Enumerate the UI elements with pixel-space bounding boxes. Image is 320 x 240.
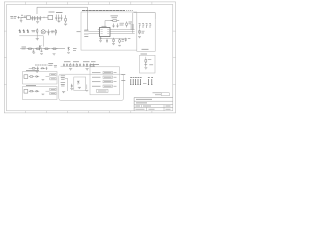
junction row1 xyxy=(43,17,45,19)
wire H in xyxy=(86,85,88,90)
U1 pin names xyxy=(101,30,110,34)
ground GND3 xyxy=(57,21,60,23)
ground GND2 xyxy=(36,22,39,24)
resistor R25 xyxy=(119,39,121,44)
transistor Q5 xyxy=(39,45,41,50)
label band2 text xyxy=(22,47,27,49)
label D2 text xyxy=(148,59,152,61)
label row2 text xyxy=(92,76,101,78)
sheet border outer frame xyxy=(4,2,175,113)
title block line2 xyxy=(134,104,173,106)
label R8 text xyxy=(142,31,145,33)
capacitor C6 xyxy=(58,15,60,21)
title block line3 xyxy=(134,106,173,108)
label TP2 text xyxy=(133,77,135,79)
group box sensor xyxy=(140,55,156,73)
testpoint TP5 xyxy=(139,79,141,85)
resistor R21 xyxy=(32,68,36,69)
border zone ticks top xyxy=(26,2,152,5)
testpoint pads xyxy=(130,84,152,86)
U1 right pins xyxy=(110,30,112,34)
resistor R14 xyxy=(70,63,71,66)
resistor R1 xyxy=(24,16,27,17)
ground GND16 xyxy=(85,89,88,92)
resistor R3 xyxy=(111,20,120,22)
label TP7 text xyxy=(151,77,153,79)
regulator U2 xyxy=(26,16,30,19)
label sensor caption xyxy=(141,53,148,55)
group box radio module xyxy=(137,13,155,52)
capacitor C14 xyxy=(33,49,35,52)
label R17 text xyxy=(61,75,66,77)
capacitor C10 xyxy=(100,37,102,40)
label JP3 text xyxy=(146,22,148,24)
U1 refdes text xyxy=(102,25,107,27)
ground GND20 xyxy=(32,52,35,55)
wire U1 out1 xyxy=(112,29,135,31)
U1 left pins xyxy=(98,30,100,34)
wire node VCC xyxy=(30,16,41,18)
capacitor C18 xyxy=(79,64,81,67)
ground GND17 xyxy=(42,78,45,81)
label part5 text xyxy=(48,64,53,66)
label row3 box xyxy=(103,81,113,83)
label JP4 text xyxy=(149,22,151,24)
capacitor C22 xyxy=(46,67,48,70)
ground GND11 xyxy=(67,52,70,55)
resistor R6 xyxy=(126,22,128,28)
wire band2 xyxy=(20,48,65,50)
label JP1 text xyxy=(139,22,141,24)
wire to module xyxy=(134,13,156,19)
testpoint TP2 xyxy=(132,79,134,85)
diode D8 xyxy=(35,76,39,78)
battery BT3 xyxy=(27,29,29,33)
ground GND22 xyxy=(118,44,121,47)
ground GND1 xyxy=(20,18,23,22)
wire group1 xyxy=(29,67,33,69)
jumper JP4 xyxy=(150,25,151,28)
title block outline xyxy=(134,98,173,111)
label TP3 text xyxy=(135,77,137,79)
transistor Q3 xyxy=(77,81,79,85)
resistor R5 xyxy=(84,34,89,37)
resistor R8 xyxy=(139,31,141,34)
label module text xyxy=(142,48,149,50)
label row1 box xyxy=(103,72,113,74)
resistor R4 xyxy=(84,30,89,31)
ground GND6 xyxy=(112,43,115,45)
jumper JP2 xyxy=(143,25,144,28)
ground GND13 xyxy=(86,69,89,71)
border zone ticks right xyxy=(173,31,176,84)
ground GND4 xyxy=(64,24,67,26)
ground GND9 xyxy=(36,39,39,41)
wire opto2 xyxy=(46,90,50,92)
ground GND7 xyxy=(138,37,141,39)
led D2 xyxy=(145,60,147,65)
label PWR text xyxy=(49,11,63,13)
fuse F1 xyxy=(20,15,23,17)
title text file xyxy=(136,108,171,110)
resistor R9 xyxy=(55,29,56,35)
transistor Q2 xyxy=(67,47,69,52)
label R3 text xyxy=(111,16,119,18)
resistor R16 xyxy=(86,63,87,66)
label group1 text xyxy=(35,64,48,66)
title text title xyxy=(136,102,147,104)
title block divider1 xyxy=(140,105,142,108)
label row4 mark xyxy=(114,85,117,87)
border zone ticks left xyxy=(4,31,6,84)
diode D1 xyxy=(18,16,20,18)
connector J3 xyxy=(24,90,28,94)
transistor Q4 xyxy=(41,30,45,34)
diode D9 xyxy=(35,90,39,92)
label C9 text xyxy=(120,23,125,25)
battery BT1 xyxy=(19,29,21,33)
jumper JP3 xyxy=(147,25,148,28)
resistor R24 xyxy=(29,91,34,92)
capacitor C25 xyxy=(93,64,95,67)
capacitor C2 xyxy=(34,16,36,21)
ground GND5 xyxy=(99,41,102,43)
capacitor C12 xyxy=(48,29,50,35)
battery BT2 xyxy=(23,29,25,33)
label JP2 text xyxy=(142,22,144,24)
wire sensor xyxy=(145,57,147,59)
label Q2 text xyxy=(73,49,77,51)
label R18 text xyxy=(61,82,66,84)
transistor Q4 leads xyxy=(41,30,45,33)
wire U1 out2 xyxy=(112,31,135,33)
border zone ticks bottom xyxy=(26,111,152,113)
testpoint TP3 xyxy=(135,79,137,85)
resistor R15 xyxy=(76,63,77,66)
wire bus mid xyxy=(61,65,96,67)
label row1 text xyxy=(92,72,101,74)
wire VIN top bus xyxy=(37,7,88,30)
label opto1 box1 xyxy=(50,73,56,75)
resistor R17 xyxy=(61,78,65,80)
label net stub text xyxy=(77,31,81,33)
resistor R18 xyxy=(61,84,65,86)
label opto lower caption xyxy=(26,85,36,87)
capacitor C26 xyxy=(125,38,127,42)
wire row1 link xyxy=(41,16,48,18)
capacitor C27 xyxy=(71,84,73,88)
resistor R7 xyxy=(113,38,115,43)
capacitor C8 xyxy=(113,24,115,28)
resistor R23 xyxy=(29,76,34,77)
label opto upper caption xyxy=(26,70,39,72)
title block divider2 xyxy=(163,105,165,111)
group box opto upper xyxy=(23,72,58,85)
label bottom text xyxy=(98,90,107,92)
label band1 text xyxy=(31,30,35,32)
wire band2 out xyxy=(58,48,65,50)
label row2 mark xyxy=(114,76,117,78)
label row2 box xyxy=(103,76,113,78)
capacitor C11 xyxy=(106,39,108,43)
label TP5 text xyxy=(140,77,142,79)
ground GND10 xyxy=(40,53,43,56)
label TP1 text xyxy=(130,77,132,79)
ground GND18 xyxy=(42,93,45,96)
capacitor C7 xyxy=(61,15,63,21)
ground GND12 xyxy=(69,69,72,71)
capacitor C3 xyxy=(37,16,39,21)
label sensors caption xyxy=(64,61,96,63)
group box opto lower xyxy=(23,87,58,100)
label opto2 box2 xyxy=(50,92,56,94)
capacitor C5 xyxy=(55,15,57,21)
wire B right drop xyxy=(132,13,134,34)
capacitor C15 xyxy=(41,49,43,52)
label row3 text xyxy=(92,81,101,83)
label R25 text xyxy=(122,40,125,42)
label J1 text xyxy=(10,16,16,18)
diode D7 xyxy=(41,68,46,70)
capacitor C17 xyxy=(66,64,68,67)
jumper JP1 xyxy=(140,25,141,28)
title block divider3 xyxy=(146,107,148,110)
mcu U1 xyxy=(100,28,111,37)
capacitor C9 xyxy=(117,24,119,28)
ground GND23 xyxy=(70,89,73,91)
testpoint TP7 xyxy=(151,79,153,85)
ground GND21 xyxy=(53,54,56,56)
capacitor C20 xyxy=(37,67,39,71)
ground GND19 xyxy=(36,71,39,72)
label TP text xyxy=(143,83,147,85)
label table caption xyxy=(91,64,99,66)
transistor Q1 xyxy=(144,65,147,67)
capacitor C19 xyxy=(83,64,85,67)
switch SW1 xyxy=(48,15,53,19)
label opto2 box1 xyxy=(50,88,56,90)
ground GND14 xyxy=(62,91,65,93)
wire band1 xyxy=(19,32,55,47)
diode D10 xyxy=(37,28,38,34)
capacitor C23 xyxy=(73,64,75,67)
title text size xyxy=(136,105,171,107)
label row3 mark xyxy=(114,81,117,83)
label bottom box xyxy=(97,90,109,93)
label right marks xyxy=(121,75,125,81)
ground GND15 xyxy=(78,87,81,89)
label C26 text xyxy=(128,38,131,40)
capacitor C24 xyxy=(89,64,91,67)
resistor R2 xyxy=(65,15,67,23)
label row1 mark xyxy=(114,72,117,74)
resistor R10 xyxy=(27,48,34,50)
label sheet text xyxy=(153,93,162,95)
label sheet box xyxy=(162,93,170,96)
capacitor C4 xyxy=(39,16,41,21)
label C12 text xyxy=(51,31,54,33)
label R6 text xyxy=(129,22,133,24)
resistor R22 xyxy=(54,66,57,68)
sheet border inner frame xyxy=(7,5,173,111)
resistor R12 xyxy=(44,48,51,50)
wire U1 tx xyxy=(89,33,98,35)
note heading text xyxy=(82,10,125,12)
label row4 text xyxy=(92,85,101,87)
testpoint TP6 xyxy=(148,79,150,85)
capacitor C1 xyxy=(31,16,33,21)
label net text xyxy=(131,25,135,29)
testpoint TP4 xyxy=(137,79,139,85)
ground GND8 xyxy=(144,68,147,70)
label opto1 box2 xyxy=(50,78,56,80)
label Q1 text xyxy=(149,64,153,66)
group box small relay xyxy=(74,77,86,91)
wire U1 vcc xyxy=(105,21,113,28)
testpoint TP1 xyxy=(130,79,132,85)
group box indicator rounded xyxy=(59,74,124,100)
label TP6 text xyxy=(148,77,150,79)
title block line1 xyxy=(134,100,173,102)
wire U1 bottom xyxy=(101,38,128,40)
wire opto1 xyxy=(46,76,50,78)
wire U1 rx xyxy=(89,31,98,33)
resistor R11 xyxy=(35,48,42,50)
capacitor C16 xyxy=(63,64,65,67)
label TP4 text xyxy=(137,77,139,79)
group box connector table xyxy=(90,67,120,95)
wire module xyxy=(139,28,141,35)
resistor R13 xyxy=(52,48,59,50)
group box MCU section xyxy=(81,12,137,50)
wire U1 out3 xyxy=(112,33,135,35)
label row4 box xyxy=(103,85,113,87)
title text company xyxy=(136,98,152,100)
connector J2 xyxy=(24,75,28,79)
wire left column xyxy=(65,78,68,91)
